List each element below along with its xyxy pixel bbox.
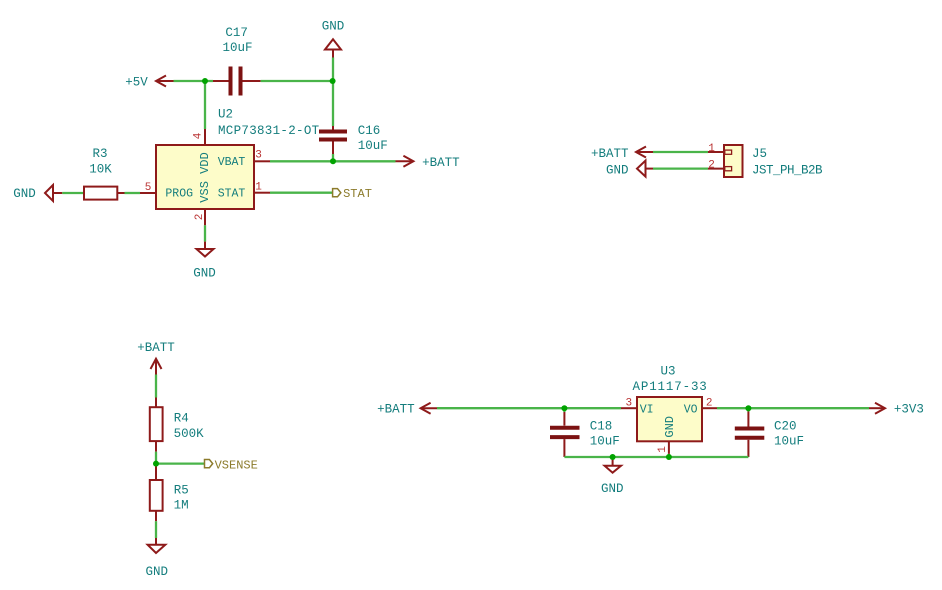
svg-text:C18: C18 (590, 419, 613, 433)
svg-text:10uF: 10uF (774, 434, 804, 448)
svg-text:VBAT: VBAT (218, 156, 246, 169)
svg-text:GND: GND (601, 482, 624, 496)
svg-text:MCP73831-2-OT: MCP73831-2-OT (218, 124, 320, 138)
svg-text:J5: J5 (752, 147, 767, 161)
svg-text:1: 1 (255, 182, 262, 194)
svg-text:1M: 1M (174, 498, 189, 512)
svg-text:R4: R4 (174, 412, 189, 426)
svg-text:+BATT: +BATT (591, 147, 629, 161)
svg-text:10uF: 10uF (590, 434, 620, 448)
svg-text:3: 3 (625, 398, 632, 410)
svg-text:10uF: 10uF (222, 41, 252, 55)
svg-text:AP1117-33: AP1117-33 (633, 380, 708, 394)
svg-text:JST_PH_B2B: JST_PH_B2B (752, 164, 823, 178)
svg-text:GND: GND (606, 164, 629, 178)
svg-text:STAT: STAT (218, 187, 246, 200)
svg-text:VSENSE: VSENSE (215, 459, 258, 473)
svg-text:U2: U2 (218, 108, 233, 122)
svg-text:VI: VI (640, 403, 654, 416)
svg-text:2: 2 (706, 398, 713, 410)
svg-text:10K: 10K (89, 163, 112, 177)
svg-text:R3: R3 (92, 147, 107, 161)
svg-text:C17: C17 (225, 26, 248, 40)
svg-text:2: 2 (194, 214, 206, 221)
svg-text:5: 5 (145, 182, 152, 194)
svg-text:PROG: PROG (165, 187, 193, 200)
svg-text:1: 1 (657, 446, 669, 453)
svg-text:+BATT: +BATT (377, 403, 415, 417)
svg-text:STAT: STAT (343, 187, 372, 201)
svg-text:R5: R5 (174, 484, 189, 498)
svg-text:+5V: +5V (125, 76, 148, 90)
svg-text:3: 3 (255, 150, 262, 162)
svg-text:C16: C16 (358, 124, 381, 138)
svg-text:GND: GND (146, 565, 169, 579)
svg-text:C20: C20 (774, 419, 797, 433)
svg-text:1: 1 (708, 143, 715, 155)
svg-text:+3V3: +3V3 (894, 403, 924, 417)
svg-text:GND: GND (663, 416, 677, 438)
svg-text:500K: 500K (174, 427, 205, 441)
svg-text:+BATT: +BATT (137, 341, 175, 355)
svg-text:GND: GND (193, 267, 216, 281)
svg-text:4: 4 (192, 132, 204, 139)
svg-text:+BATT: +BATT (422, 156, 460, 170)
svg-text:GND: GND (322, 20, 345, 34)
svg-text:10uF: 10uF (358, 139, 388, 153)
svg-text:VO: VO (684, 403, 698, 416)
svg-text:VSS VDD: VSS VDD (198, 152, 212, 202)
svg-text:2: 2 (708, 160, 715, 172)
svg-text:GND: GND (13, 187, 36, 201)
svg-text:U3: U3 (660, 365, 675, 379)
